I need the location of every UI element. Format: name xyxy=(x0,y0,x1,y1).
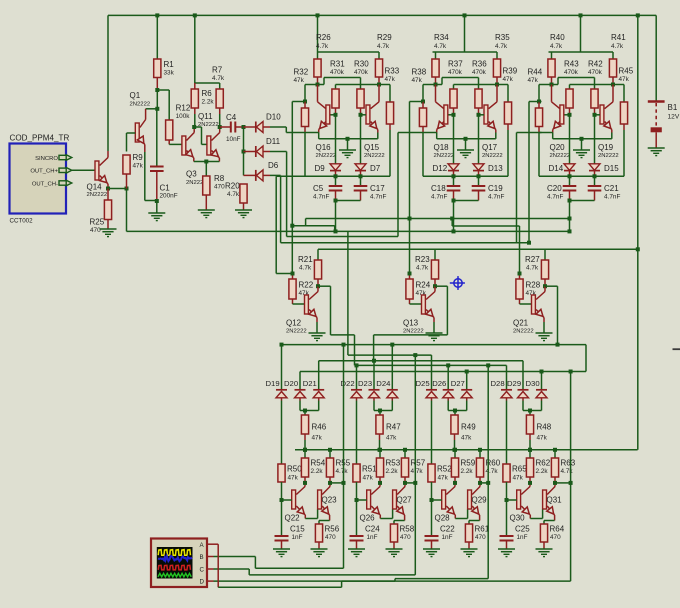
node 47k feed xyxy=(378,409,382,413)
ground R20 xyxy=(235,209,252,211)
transistor Q15 2N2222 xyxy=(366,105,370,124)
resistor R44 47k xyxy=(538,102,540,109)
svg-text:2N2222: 2N2222 xyxy=(598,153,619,159)
svg-text:D22: D22 xyxy=(341,379,355,388)
battery B1 12V xyxy=(648,100,665,103)
node R57 top xyxy=(403,448,407,452)
svg-text:R61: R61 xyxy=(475,525,490,534)
transistor Q12 2N2222 xyxy=(293,303,305,305)
node R22 top xyxy=(291,272,295,276)
resistor R56 470 xyxy=(315,524,322,542)
ground Q21 xyxy=(536,332,553,334)
svg-text:47k: 47k xyxy=(619,76,630,83)
node R54 top xyxy=(303,448,307,452)
node emitter gnd xyxy=(346,137,350,141)
wire diode group join xyxy=(281,401,283,465)
svg-text:470: 470 xyxy=(214,184,225,191)
wire Q30.e to Q31 base xyxy=(530,518,542,520)
svg-text:R53: R53 xyxy=(386,459,401,468)
svg-text:470: 470 xyxy=(400,534,411,541)
node 47k feed xyxy=(303,409,307,413)
wire D11 out xyxy=(270,151,287,153)
svg-text:Q18: Q18 xyxy=(434,143,450,152)
resistor R1 33k xyxy=(154,59,161,78)
node Q17 base xyxy=(477,113,481,117)
wire Q22 base xyxy=(282,499,292,501)
wire Q21 emitter gnd xyxy=(543,322,545,333)
wire Q14 collector riser xyxy=(107,15,109,151)
transistor Q17 2N2222 xyxy=(484,105,488,124)
node Q19 base xyxy=(593,113,597,117)
wire riser block R26 xyxy=(316,13,320,17)
wire cross couple right xyxy=(454,84,509,86)
svg-text:R12: R12 xyxy=(176,104,191,113)
wire rail feed R6 R7 xyxy=(195,82,220,84)
wire R44 top xyxy=(539,84,552,86)
resistor R45 47k xyxy=(620,102,627,124)
svg-text:Q14: Q14 xyxy=(87,182,103,191)
node cap row R xyxy=(359,174,363,178)
transistor Q30 2N2222 xyxy=(517,490,521,509)
diode D7 xyxy=(355,164,366,171)
svg-text:4.7k: 4.7k xyxy=(611,43,624,50)
capacitor C4 10nF xyxy=(220,126,231,128)
wire nest row4 xyxy=(355,364,507,366)
svg-text:COD_PPM4_TR: COD_PPM4_TR xyxy=(10,134,70,143)
resistor R20 4.7k xyxy=(240,184,247,203)
trace B blue xyxy=(158,556,192,561)
resistor R33 47k xyxy=(386,102,393,124)
svg-text:4.7k: 4.7k xyxy=(336,468,349,475)
svg-text:R48: R48 xyxy=(537,423,552,432)
node collector riser xyxy=(413,481,417,485)
svg-text:R52: R52 xyxy=(437,465,452,474)
svg-text:D19: D19 xyxy=(266,379,280,388)
svg-text:C25: C25 xyxy=(515,525,530,534)
wire probe D xyxy=(214,580,396,582)
node R60 top xyxy=(478,448,482,452)
node Q20 base xyxy=(568,113,572,117)
node C1 bottom xyxy=(155,199,159,203)
svg-text:C15: C15 xyxy=(290,525,305,534)
svg-text:Q11: Q11 xyxy=(198,112,213,121)
node cap row L xyxy=(334,174,338,178)
svg-text:D25: D25 xyxy=(416,379,430,388)
svg-text:R29: R29 xyxy=(377,33,392,42)
node Q11 collector xyxy=(218,125,222,129)
node R21 bottom xyxy=(316,284,320,288)
svg-text:470: 470 xyxy=(90,227,101,234)
svg-text:C24: C24 xyxy=(365,525,380,534)
ground R25 xyxy=(100,228,117,230)
svg-text:R49: R49 xyxy=(461,423,476,432)
wire caps to trigger bus xyxy=(453,201,455,232)
node R55 top xyxy=(328,448,332,452)
svg-text:1nF: 1nF xyxy=(442,534,453,541)
svg-text:2N2222: 2N2222 xyxy=(364,153,385,159)
resistor R54 2.2k xyxy=(304,450,306,458)
trace A yellow xyxy=(158,550,190,556)
svg-text:4.7k: 4.7k xyxy=(550,43,563,50)
node 47k feed xyxy=(528,409,532,413)
diode D20 xyxy=(299,372,301,390)
resistor R52 47k xyxy=(428,464,435,482)
ground Q12 xyxy=(309,332,326,334)
svg-text:R9: R9 xyxy=(133,153,144,162)
wire row A2 xyxy=(452,225,519,227)
svg-text:R22: R22 xyxy=(299,281,314,290)
resistor R42 470k xyxy=(591,89,598,108)
svg-text:C17: C17 xyxy=(370,184,385,193)
node row3 D23 xyxy=(372,359,376,363)
wire D10 out xyxy=(270,126,286,128)
svg-text:R28: R28 xyxy=(526,281,541,290)
wire output power bus xyxy=(295,449,638,451)
wire Q13 collector out xyxy=(435,285,447,287)
wire probe A xyxy=(214,543,219,545)
node row4 D26 xyxy=(446,363,450,367)
node row5 Q31 col xyxy=(569,370,573,374)
svg-text:D: D xyxy=(200,579,205,586)
resistor R29 4.7k xyxy=(375,59,382,77)
svg-text:4.7nF: 4.7nF xyxy=(547,194,563,201)
ground R64 xyxy=(536,548,553,550)
node Q22 base xyxy=(280,498,284,502)
svg-text:R6: R6 xyxy=(202,89,213,98)
ground pair xyxy=(457,149,474,151)
svg-text:C18: C18 xyxy=(431,184,446,193)
svg-text:Q26: Q26 xyxy=(360,514,376,523)
svg-text:47k: 47k xyxy=(503,76,514,83)
svg-text:47k: 47k xyxy=(385,76,396,83)
resistor R21 4.7k xyxy=(317,249,319,260)
transistor Q26 2N2222 xyxy=(367,490,371,509)
oscilloscope screen xyxy=(157,547,193,579)
svg-text:C4: C4 xyxy=(226,113,237,122)
node diode feed top xyxy=(242,125,246,129)
ground battery xyxy=(648,147,665,149)
svg-text:R21: R21 xyxy=(298,255,313,264)
node Q26 collector xyxy=(378,481,382,485)
wire R32 top xyxy=(305,84,318,86)
node Q23 collector xyxy=(328,481,332,485)
svg-text:2N2222: 2N2222 xyxy=(403,329,424,335)
svg-text:470k: 470k xyxy=(472,69,487,76)
svg-text:R30: R30 xyxy=(354,60,369,69)
wire D6 out xyxy=(270,174,281,176)
wire Q27 collector out xyxy=(405,482,415,484)
ground R58 xyxy=(386,548,403,550)
transistor Q14 2N2222 xyxy=(95,161,99,180)
wire R1-R12 link xyxy=(157,89,169,91)
svg-text:470k: 470k xyxy=(588,69,603,76)
svg-text:47k: 47k xyxy=(438,475,449,482)
svg-text:47k: 47k xyxy=(312,435,323,442)
node Q27 collector xyxy=(403,481,407,485)
wire R38 top xyxy=(423,84,436,86)
ground R8 xyxy=(198,209,215,211)
node R9 bottom xyxy=(125,187,129,191)
transistor Q23 2N2222 xyxy=(318,490,322,509)
capacitor C22 1nF xyxy=(425,535,439,537)
node R40 bottom xyxy=(550,83,554,87)
wire cross couple left xyxy=(552,84,559,86)
svg-text:R20: R20 xyxy=(225,182,240,191)
svg-text:R37: R37 xyxy=(448,60,463,69)
diode D9 xyxy=(335,163,337,165)
resistor R6 2.2k xyxy=(194,83,196,89)
diode D14 xyxy=(569,163,571,165)
resistor R25 470 xyxy=(107,189,109,201)
svg-text:4.7k: 4.7k xyxy=(316,43,329,50)
diode D27 xyxy=(466,372,468,390)
svg-text:Q27: Q27 xyxy=(397,496,413,505)
svg-text:R54: R54 xyxy=(311,459,326,468)
resistor R59 2.2k xyxy=(454,450,456,458)
node middle rail right xyxy=(636,247,640,251)
diode D23 xyxy=(373,361,375,390)
svg-text:R32: R32 xyxy=(294,68,309,77)
svg-text:Q20: Q20 xyxy=(550,143,566,152)
svg-text:B: B xyxy=(200,554,204,561)
wire nest row5 xyxy=(300,371,586,373)
wire Q26 base xyxy=(357,499,367,501)
node R24 top xyxy=(408,272,412,276)
svg-text:Q23: Q23 xyxy=(322,496,338,505)
diode D11 xyxy=(244,151,256,153)
svg-text:Q3: Q3 xyxy=(186,170,197,179)
svg-text:D28: D28 xyxy=(491,379,505,388)
diode D10 xyxy=(244,126,256,128)
wire Q14.e to R9 column xyxy=(108,188,127,190)
transistor Q16 2N2222 xyxy=(326,105,330,124)
resistor R39 47k xyxy=(504,102,511,124)
resistor R22 47k xyxy=(292,274,294,280)
svg-text:470: 470 xyxy=(325,534,336,541)
svg-text:Q16: Q16 xyxy=(316,143,332,152)
svg-text:2N2222: 2N2222 xyxy=(130,102,151,108)
svg-text:D11: D11 xyxy=(266,137,281,146)
node Q22 collector xyxy=(303,481,307,485)
svg-text:2N2222: 2N2222 xyxy=(316,153,337,159)
resistor R38 47k xyxy=(422,102,424,109)
resistor R41 4.7k xyxy=(609,59,616,77)
node Q29 collector xyxy=(478,481,482,485)
wire probe B xyxy=(214,556,256,558)
capacitor C18 4.7nF xyxy=(453,176,455,186)
svg-text:1nF: 1nF xyxy=(517,534,528,541)
wire probe C xyxy=(214,568,250,570)
svg-text:2N2222: 2N2222 xyxy=(513,329,534,335)
oscilloscope body xyxy=(151,539,207,588)
svg-text:R43: R43 xyxy=(564,60,579,69)
svg-text:4.7k: 4.7k xyxy=(377,43,390,50)
off-canvas stub xyxy=(673,348,680,350)
node R62 top xyxy=(528,448,532,452)
node R1 bottom xyxy=(155,88,159,92)
svg-text:C21: C21 xyxy=(604,184,619,193)
svg-text:200nF: 200nF xyxy=(160,193,178,200)
wire Q22.e to Q23 base xyxy=(305,518,317,520)
svg-text:D7: D7 xyxy=(370,164,381,173)
svg-text:4.7k: 4.7k xyxy=(434,43,447,50)
svg-text:D26: D26 xyxy=(432,379,446,388)
svg-text:4.7nF: 4.7nF xyxy=(313,194,329,201)
resistor R64 470 xyxy=(540,524,547,542)
svg-text:2N2222: 2N2222 xyxy=(550,153,571,159)
svg-text:4.7k: 4.7k xyxy=(411,468,424,475)
wire rowC drop to nest xyxy=(347,231,349,355)
transistor Q19 2N2222 xyxy=(600,105,604,124)
trace C red xyxy=(158,565,190,570)
cursor marker xyxy=(450,276,465,290)
node cap row L xyxy=(568,174,572,178)
resistor R8 470 xyxy=(203,176,210,195)
node R34 bottom xyxy=(434,83,438,87)
svg-text:R62: R62 xyxy=(536,459,551,468)
svg-text:D29: D29 xyxy=(507,379,521,388)
svg-text:D10: D10 xyxy=(266,113,281,122)
node diode feed D11 xyxy=(242,150,246,154)
node row1 D19 xyxy=(280,343,284,347)
svg-text:D23: D23 xyxy=(358,379,372,388)
wire R12 to Q3 base xyxy=(169,143,182,145)
svg-text:4.7k: 4.7k xyxy=(212,75,225,82)
node R48 bottom xyxy=(528,448,532,452)
node cap row R xyxy=(593,174,597,178)
node row1 D24 xyxy=(390,343,394,347)
node Q26 base xyxy=(355,498,359,502)
wire emitter rail xyxy=(552,133,554,139)
capacitor C15 1nF xyxy=(275,535,289,537)
wire block2 feed drop xyxy=(410,101,424,103)
wire Q31 emitter to R64 xyxy=(544,520,555,522)
node row4 D22 xyxy=(355,363,359,367)
svg-text:470: 470 xyxy=(550,534,561,541)
node emitter gnd xyxy=(464,137,468,141)
svg-text:R7: R7 xyxy=(212,66,223,75)
diode D6 xyxy=(244,174,256,176)
svg-text:R42: R42 xyxy=(588,60,603,69)
node cap bottoms xyxy=(452,199,456,203)
svg-text:R35: R35 xyxy=(495,33,510,42)
svg-text:C: C xyxy=(200,567,205,574)
node R59 top xyxy=(453,448,457,452)
resistor R62 2.2k xyxy=(529,450,531,458)
resistor R65 47k xyxy=(503,464,510,482)
node Q30 base xyxy=(505,498,509,502)
node row1 Q21 feed xyxy=(556,343,560,347)
transistor Q3 2N2222 xyxy=(182,136,186,155)
transistor Q22 2N2222 xyxy=(292,490,296,509)
ground C24 xyxy=(348,548,365,550)
wire cap row xyxy=(423,175,508,177)
transistor Q28 2N2222 xyxy=(442,490,446,509)
node Q31 collector xyxy=(553,481,557,485)
wire riser block R40 xyxy=(580,15,582,52)
transistor Q29 2N2222 xyxy=(468,490,472,509)
svg-text:47k: 47k xyxy=(412,77,423,84)
wire row B xyxy=(292,225,334,227)
svg-text:2.2k: 2.2k xyxy=(536,468,549,475)
node cap bottoms xyxy=(334,199,338,203)
diode D13 xyxy=(473,164,484,171)
svg-text:C5: C5 xyxy=(313,184,324,193)
svg-text:D27: D27 xyxy=(451,379,465,388)
node Q30 collector xyxy=(528,481,532,485)
node R32 top xyxy=(303,100,307,104)
svg-text:R39: R39 xyxy=(503,67,518,76)
node Q15 base xyxy=(359,113,363,117)
svg-text:10nF: 10nF xyxy=(226,136,241,143)
svg-text:OUT_CH-: OUT_CH- xyxy=(32,181,58,187)
svg-text:470k: 470k xyxy=(564,69,579,76)
wire Q30 base xyxy=(507,499,517,501)
svg-text:2.2k: 2.2k xyxy=(386,468,399,475)
ground pair xyxy=(339,149,356,151)
svg-text:2.2k: 2.2k xyxy=(461,468,474,475)
node cap row L xyxy=(452,174,456,178)
diode D22 xyxy=(356,365,358,389)
svg-text:Q17: Q17 xyxy=(482,143,498,152)
wire Q28.e to Q29 base xyxy=(455,518,467,520)
wire Q1 collector link xyxy=(146,108,158,110)
svg-text:Q13: Q13 xyxy=(403,319,419,328)
svg-text:OUT_CH+: OUT_CH+ xyxy=(30,169,58,175)
svg-text:4.7k: 4.7k xyxy=(495,43,508,50)
svg-text:2N2222: 2N2222 xyxy=(198,122,219,128)
svg-text:Q15: Q15 xyxy=(364,143,380,152)
node R38 top xyxy=(421,100,425,104)
svg-text:47k: 47k xyxy=(386,435,397,442)
node emitter join xyxy=(204,160,208,164)
trace D green xyxy=(158,573,191,576)
wire nest row2 xyxy=(348,354,432,356)
node Q28 collector xyxy=(453,481,457,485)
node row5 D30 xyxy=(540,370,544,374)
svg-text:R50: R50 xyxy=(287,465,302,474)
svg-text:Q1: Q1 xyxy=(130,91,141,100)
wire trigger bus drop xyxy=(126,189,128,232)
wire Q29 collector out xyxy=(480,482,488,484)
wire Q29 emitter to R61 xyxy=(469,520,480,522)
resistor R50 47k xyxy=(278,464,285,482)
node R47 bottom xyxy=(378,448,382,452)
wire Q28 base xyxy=(432,499,442,501)
svg-text:D30: D30 xyxy=(526,379,540,388)
svg-text:Q12: Q12 xyxy=(286,319,302,328)
svg-text:47k: 47k xyxy=(537,435,548,442)
wire cross couple right xyxy=(570,84,625,86)
capacitor C5 4.7nF xyxy=(335,176,337,186)
svg-text:D13: D13 xyxy=(488,164,503,173)
resistor R31 470k xyxy=(332,89,339,108)
node row5 D27 xyxy=(465,370,469,374)
wire cross couple left xyxy=(436,84,443,86)
resistor R23 4.7k xyxy=(434,249,436,260)
wire Q27 emitter to R58 xyxy=(394,520,405,522)
resistor R24 47k xyxy=(409,274,411,280)
ground R61 xyxy=(461,548,478,550)
resistor R55 4.7k xyxy=(329,450,331,458)
capacitor C1 200nF xyxy=(156,109,158,167)
svg-text:R41: R41 xyxy=(611,33,626,42)
svg-text:Q30: Q30 xyxy=(510,514,526,523)
node R41 bottom xyxy=(611,83,615,87)
resistor R58 470 xyxy=(390,524,397,542)
transistor Q20 2N2222 xyxy=(560,105,564,124)
wire D10 injection to block1 xyxy=(286,132,305,134)
